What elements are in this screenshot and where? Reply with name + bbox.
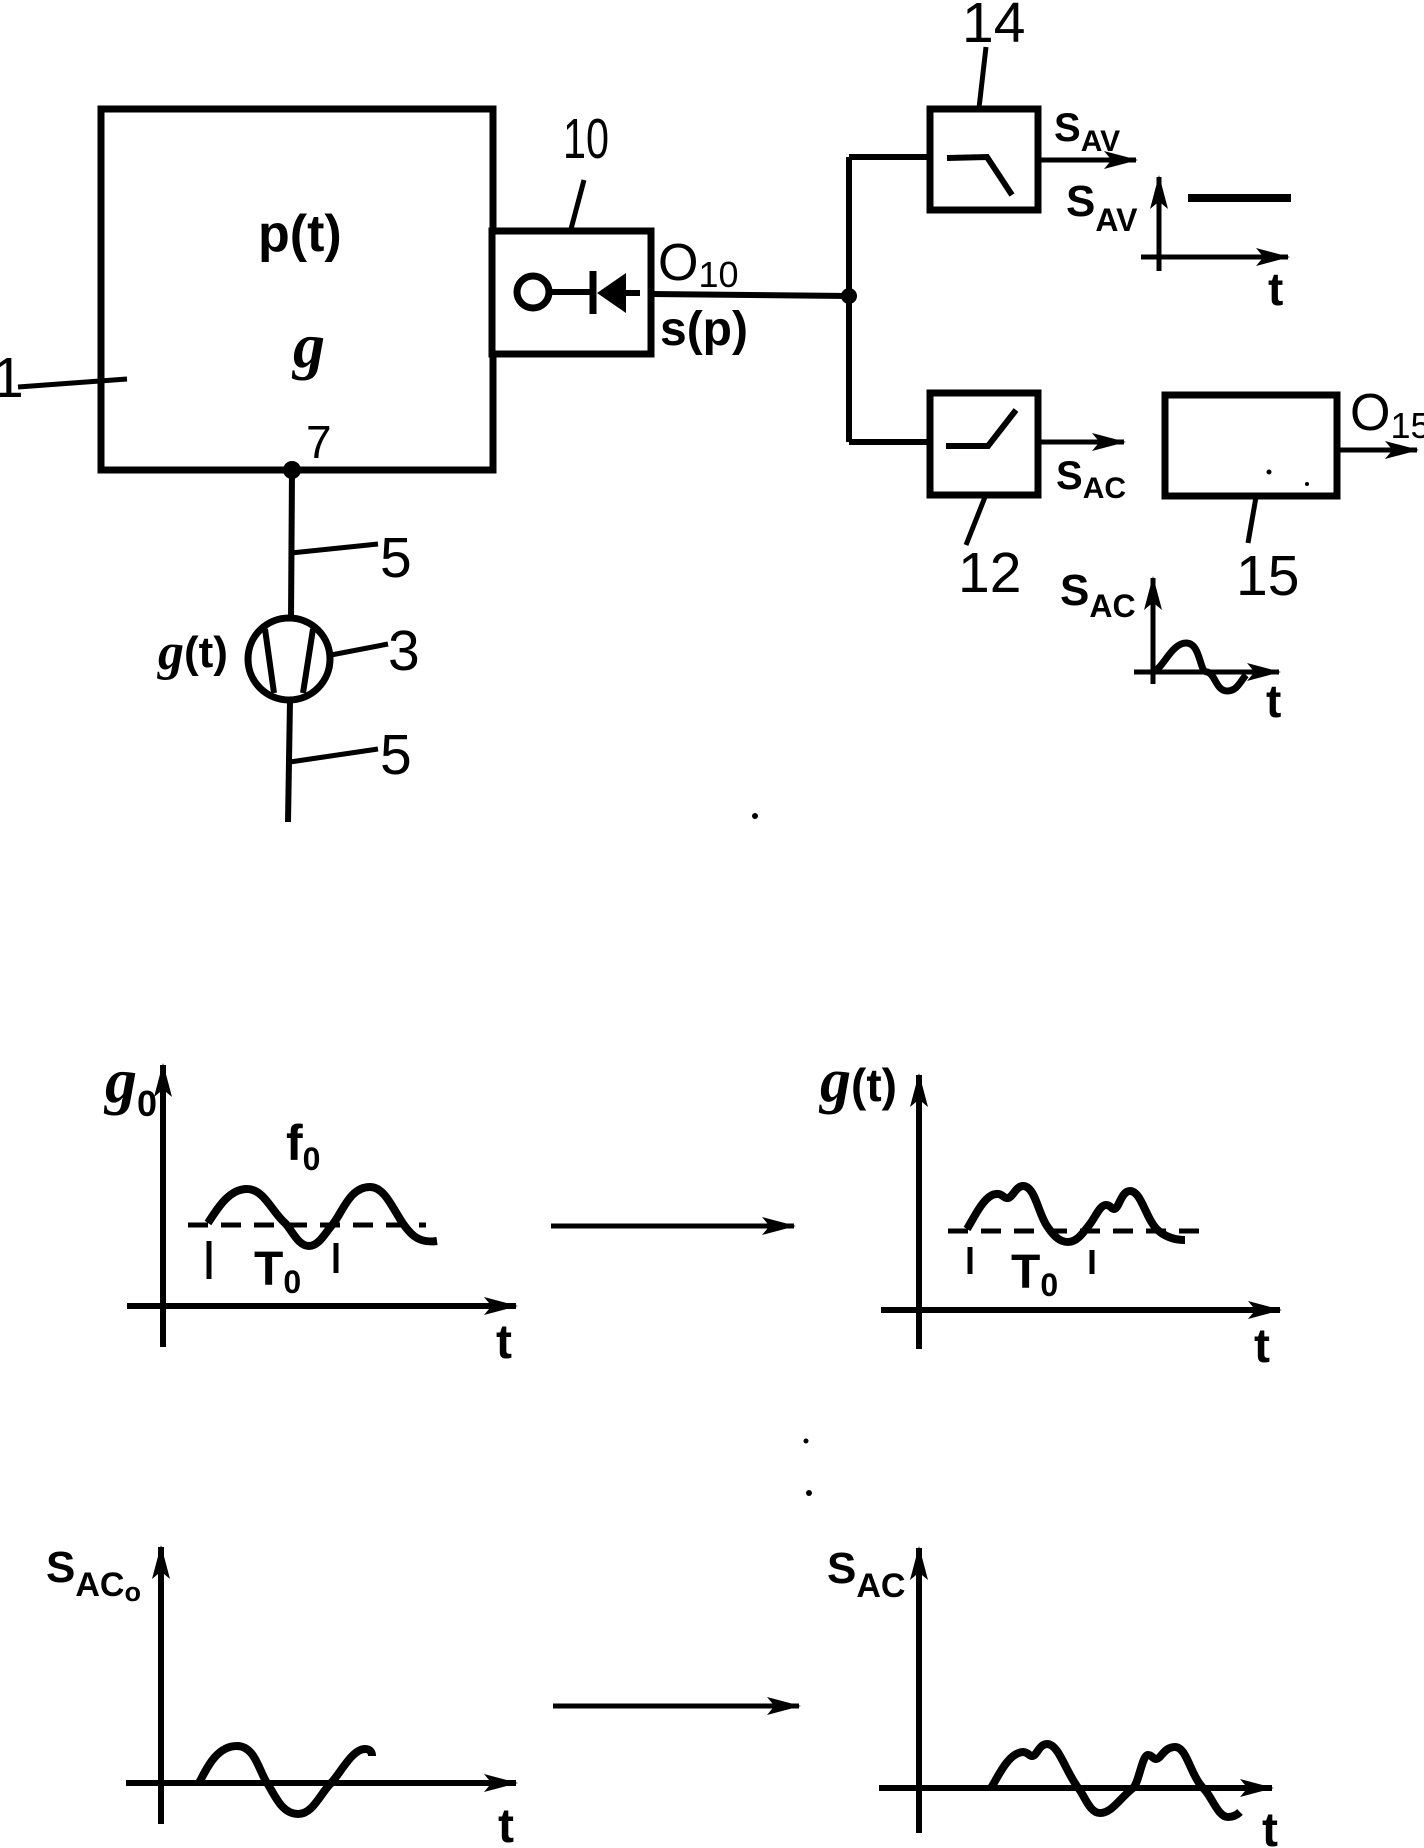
graph S_AV (DC output) <box>1066 177 1291 315</box>
arrow (transformation, bottom row) <box>553 1704 799 1709</box>
label 14 leader <box>962 0 1025 108</box>
svg-text:T0: T0 <box>254 1243 301 1300</box>
wire 5 lower (below pump) <box>288 700 290 822</box>
label 12 leader <box>958 497 1021 605</box>
svg-text:SAC: SAC <box>1060 566 1136 624</box>
graph S_AC (AC output, sine) <box>1060 566 1281 727</box>
arrow (transformation, middle row) <box>551 1224 794 1229</box>
svg-text:p(t): p(t) <box>258 205 342 263</box>
label 1 with leader <box>0 346 127 410</box>
box 12 (high-pass filter) <box>930 393 1038 495</box>
wire s(p) output of box 10 <box>651 294 849 296</box>
svg-text:T0: T0 <box>1011 1246 1058 1303</box>
svg-text:SAC: SAC <box>827 1544 905 1605</box>
svg-text:g0: g0 <box>103 1045 157 1124</box>
period ticks T0 <box>970 1247 1092 1274</box>
svg-text:t: t <box>1262 1804 1278 1848</box>
dashed baseline <box>188 1223 426 1228</box>
wire branch vertical <box>846 157 852 442</box>
svg-text:g(t): g(t) <box>818 1047 897 1115</box>
svg-text:SAC: SAC <box>1056 454 1126 505</box>
svg-text:12: 12 <box>958 541 1021 605</box>
svg-text:5: 5 <box>380 526 412 590</box>
svg-text:g(t): g(t) <box>157 624 228 681</box>
wire O15 output arrow <box>1337 448 1417 453</box>
svg-text:1: 1 <box>0 346 24 410</box>
svg-text:SAV: SAV <box>1054 106 1120 158</box>
speck dots in box 15 <box>1267 470 1310 487</box>
period ticks T0 <box>209 1241 336 1279</box>
svg-text:5: 5 <box>380 723 412 787</box>
svg-text:7: 7 <box>306 416 332 468</box>
sensor circle <box>517 276 549 308</box>
box 15 (evaluation unit) <box>1165 395 1337 496</box>
label 10 leader <box>563 107 609 229</box>
box 14 (low-pass filter) <box>930 109 1038 210</box>
graph s_AC axes <box>879 1548 1272 1833</box>
pump 3 (circle with vanes), g(t) source <box>248 618 330 700</box>
sine curve g0 <box>208 1187 437 1246</box>
label 15 leader <box>1236 497 1299 608</box>
graph g0 (undisturbed flow) axes <box>127 1065 516 1347</box>
svg-text:SACo: SACo <box>46 1543 141 1607</box>
svg-text:SAV: SAV <box>1066 177 1138 238</box>
svg-text:g: g <box>291 310 325 381</box>
wire circle to diode <box>549 289 596 295</box>
wire S_AC output arrow <box>1038 440 1124 445</box>
graph s_AC0 axes <box>126 1547 516 1824</box>
diode (cathode bar + triangle) <box>593 271 640 314</box>
distorted curve g(t) <box>967 1186 1185 1242</box>
dashed baseline <box>948 1229 1210 1234</box>
sine curve s_AC0 <box>199 1746 372 1814</box>
svg-text:15: 15 <box>1236 544 1299 608</box>
svg-text:t: t <box>496 1316 512 1369</box>
svg-text:14: 14 <box>962 0 1025 55</box>
label 5 lower leader <box>290 723 412 787</box>
svg-text:O15: O15 <box>1350 384 1424 446</box>
node 7 (junction dot on box bottom) <box>283 416 332 479</box>
svg-text:t: t <box>1254 1320 1270 1373</box>
label 5 upper leader <box>291 526 412 590</box>
speck dots <box>752 813 812 1496</box>
svg-text:t: t <box>1268 263 1283 315</box>
svg-text:O10: O10 <box>658 234 739 295</box>
box 10 (pressure sensor) <box>492 231 651 354</box>
svg-text:f0: f0 <box>286 1115 320 1177</box>
svg-text:t: t <box>498 1800 514 1848</box>
distorted curve s_AC <box>991 1744 1240 1817</box>
node (branch junction) <box>841 288 857 304</box>
svg-text:10: 10 <box>563 107 609 171</box>
svg-text:s(p): s(p) <box>660 303 748 356</box>
wire to box 14 <box>849 154 930 160</box>
box 1 (pressure chamber p(t), g) <box>101 109 493 470</box>
svg-text:3: 3 <box>388 619 420 683</box>
label 3 leader <box>331 619 420 683</box>
wire 5 upper (box to pump) <box>291 470 292 620</box>
svg-text:t: t <box>1266 675 1281 727</box>
wire S_AV output arrow <box>1038 158 1136 163</box>
graph g(t) (disturbed flow) axes <box>881 1075 1280 1349</box>
wire to box 12 <box>849 439 930 445</box>
